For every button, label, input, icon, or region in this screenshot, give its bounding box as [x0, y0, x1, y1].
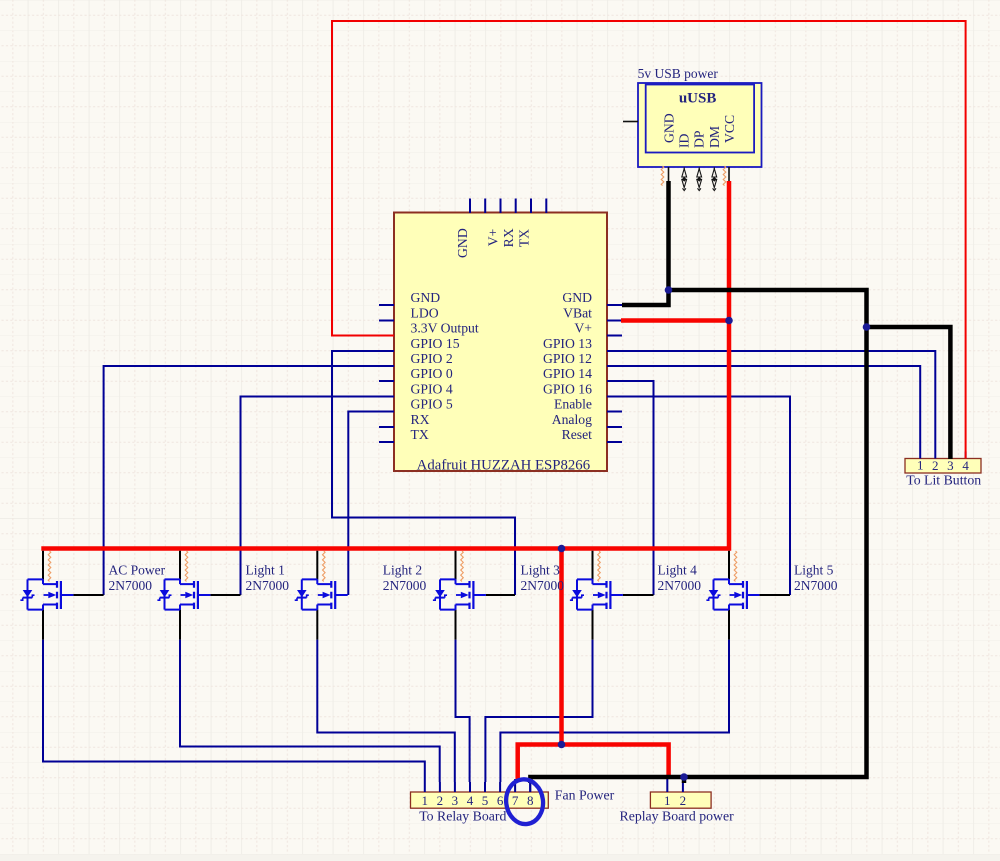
svg-text:GND: GND	[411, 290, 441, 305]
svg-text:Light 1: Light 1	[246, 563, 285, 578]
wire net GPIO15 from U1 to Q4 gate	[332, 351, 515, 595]
transistor Q3 2N7000 Light 2	[295, 551, 348, 640]
svg-text:GPIO 15: GPIO 15	[411, 336, 460, 351]
svg-text:2: 2	[437, 793, 444, 808]
svg-text:V+: V+	[485, 228, 500, 246]
svg-text:TX: TX	[411, 427, 429, 442]
svg-text:V+: V+	[574, 321, 592, 336]
ERC squiggle at Q1 drain	[48, 551, 51, 581]
wire thick black GND to J4 pin 3	[867, 327, 951, 459]
svg-text:GND: GND	[661, 113, 676, 143]
svg-text:uUSB: uUSB	[679, 91, 717, 107]
J3 pin numbers 1-2	[664, 793, 686, 808]
J4 pin numbers 1-4	[917, 458, 969, 473]
svg-text:1: 1	[664, 793, 671, 808]
svg-text:GPIO 13: GPIO 13	[543, 336, 592, 351]
ERC squiggle at Q4 drain	[461, 551, 464, 581]
connector J4 To Lit Button body	[905, 459, 981, 474]
wire thin red net 3.3V frame loop U1 to J4 pin 4	[332, 21, 966, 459]
wire Q3 source to J2 pin 3	[317, 640, 455, 782]
svg-text:Reset: Reset	[562, 427, 593, 442]
wire Q6 gate link black segment	[759, 594, 790, 596]
wire thick red VBat to VCC	[621, 318, 729, 323]
svg-text:RX: RX	[501, 228, 516, 247]
wire Q4 gate link black segment	[486, 594, 515, 596]
J1 GND pin stub	[668, 167, 670, 181]
wire thick black GND branch to J3 pin 2	[682, 777, 687, 783]
svg-text:GND: GND	[562, 290, 592, 305]
ERC squiggle at Q3 drain	[323, 551, 326, 581]
wire thick red VCC rail down and power bus	[41, 181, 729, 549]
svg-text:3: 3	[947, 458, 954, 473]
svg-text:VBat: VBat	[563, 306, 592, 321]
annotation ellipse around J2 pins 7-8	[504, 777, 546, 826]
junction at power bus tee	[558, 545, 566, 553]
wire thick red bus drop to fan power row	[559, 549, 564, 745]
svg-text:VCC: VCC	[722, 115, 737, 143]
transistor Q5 2N7000 Light 4	[570, 551, 623, 640]
J1 left side pin stub	[623, 121, 638, 123]
wire net GPIO14 from U1 to Q5 gate	[607, 381, 654, 595]
wire Q1 gate link black segment	[73, 594, 103, 596]
svg-text:2N7000: 2N7000	[383, 578, 427, 593]
svg-text:To Lit Button: To Lit Button	[906, 473, 981, 488]
svg-text:1: 1	[422, 793, 429, 808]
J2 pin stubs	[425, 779, 530, 792]
svg-text:DP: DP	[692, 130, 707, 148]
junction at black GND corner right	[863, 323, 871, 331]
J1 VCC pin stub	[728, 167, 730, 181]
wire net GPIO4 from U1 to Q2 gate	[241, 397, 395, 596]
J1 no-connect arrow on pin DP	[697, 168, 702, 191]
svg-text:DM: DM	[707, 126, 722, 148]
ERC marker squiggle at J1 GND pin	[661, 166, 664, 186]
svg-text:4: 4	[467, 793, 474, 808]
svg-text:2N7000: 2N7000	[246, 578, 290, 593]
ERC marker squiggle at J1 VCC pin	[723, 166, 726, 186]
svg-text:2: 2	[680, 793, 687, 808]
ERC squiggle at Q2 drain	[185, 551, 188, 581]
svg-text:GPIO 2: GPIO 2	[411, 351, 453, 366]
junction at GND branch	[665, 286, 673, 294]
U1 left pin names	[411, 290, 479, 442]
connector J1 uUSB body	[638, 83, 762, 167]
svg-text:GPIO 12: GPIO 12	[543, 351, 592, 366]
J1 no-connect arrow on pin DM	[712, 168, 717, 191]
svg-text:6: 6	[497, 793, 504, 808]
wire Q5 gate link black segment	[623, 594, 654, 596]
svg-text:Enable: Enable	[554, 397, 592, 412]
svg-text:Light 4: Light 4	[658, 563, 698, 578]
transistor Q1 2N7000 AC Power	[20, 551, 73, 640]
ERC squiggle at Q6 drain	[734, 551, 737, 581]
transistor Q4 2N7000 Light 3	[433, 551, 486, 640]
svg-text:AC Power: AC Power	[109, 563, 166, 578]
svg-text:4: 4	[962, 458, 969, 473]
wire Q6 source to J2 pin 6	[500, 640, 729, 782]
svg-text:2N7000: 2N7000	[794, 578, 838, 593]
wire thick black GND down along right side	[530, 327, 866, 783]
wire thick black GND branch right	[669, 290, 867, 327]
svg-text:GPIO 14: GPIO 14	[543, 366, 592, 381]
svg-text:ID: ID	[677, 133, 692, 148]
wire net GPIO5 from U1 to Q3 gate	[348, 412, 394, 596]
svg-text:Analog: Analog	[552, 412, 592, 427]
svg-text:GPIO 0: GPIO 0	[411, 366, 453, 381]
junction at fan power tee	[558, 741, 566, 749]
wire Q2 source to J2 pin 2	[180, 640, 440, 782]
U1 top pins (6 stubs)	[470, 199, 546, 214]
U1 left unconnected pin stubs	[379, 305, 394, 442]
svg-text:5: 5	[482, 793, 489, 808]
wire Q1 source to J2 pin 1	[43, 640, 425, 782]
svg-text:3.3V Output: 3.3V Output	[411, 321, 479, 336]
component U1 Adafruit HUZZAH ESP8266 body	[394, 213, 607, 472]
wire net GPIO16 from U1 to Q6 gate	[607, 397, 790, 596]
svg-text:7: 7	[512, 793, 519, 808]
svg-text:Light 5: Light 5	[794, 563, 834, 578]
svg-text:2: 2	[932, 458, 939, 473]
connector J2 To Relay Board body	[411, 792, 549, 808]
svg-text:1: 1	[917, 458, 924, 473]
transistor Q6 2N7000 Light 5	[706, 551, 759, 640]
wire net GPIO2 from U1 to Q1 gate	[104, 366, 394, 595]
svg-text:8: 8	[527, 793, 534, 808]
svg-text:5v USB power: 5v USB power	[638, 66, 719, 81]
svg-text:TX: TX	[517, 229, 532, 247]
wire Q2 gate link black segment	[210, 594, 240, 596]
wire Q4 source to J2 pin 4	[456, 640, 470, 782]
svg-text:2N7000: 2N7000	[109, 578, 153, 593]
U1 right pin stubs	[607, 305, 622, 442]
wire thick red fan power row to J2 pin 7 and J3 pin 1	[518, 745, 669, 780]
svg-text:2N7000: 2N7000	[658, 578, 702, 593]
svg-text:Fan Power: Fan Power	[555, 788, 615, 803]
transistor Q2 2N7000 Light 1	[157, 551, 210, 640]
wire J2 pin 8 stub	[529, 779, 531, 792]
J3 pin stubs	[667, 779, 683, 792]
junction at J3 pin 2 drop	[680, 773, 688, 781]
svg-text:GPIO 5: GPIO 5	[411, 397, 453, 412]
svg-text:To Relay Board: To Relay Board	[419, 809, 506, 824]
connector J3 Replay Board power body	[650, 792, 711, 808]
svg-text:3: 3	[452, 793, 459, 808]
J1 no-connect arrow on pin ID	[682, 168, 687, 191]
junction at VBat/VCC tee	[725, 317, 733, 325]
svg-text:RX: RX	[411, 412, 430, 427]
svg-text:Adafruit HUZZAH ESP8266: Adafruit HUZZAH ESP8266	[417, 457, 590, 473]
J4 pin stubs	[920, 452, 965, 459]
ERC squiggle at Q5 drain	[598, 551, 601, 581]
J2 pin numbers 1-8	[422, 793, 534, 808]
svg-text:GND: GND	[455, 228, 470, 258]
U1 right pin names	[543, 290, 592, 442]
wire net GPIO12 from U1 to J4 pin 1	[607, 366, 920, 452]
svg-text:Replay Board power: Replay Board power	[620, 809, 735, 824]
svg-text:Light 3: Light 3	[521, 563, 561, 578]
svg-text:GPIO 16: GPIO 16	[543, 382, 592, 397]
svg-text:LDO: LDO	[411, 306, 439, 321]
wire Q5 source to J2 pin 5	[485, 640, 592, 782]
svg-text:GPIO 4: GPIO 4	[411, 382, 453, 397]
wire net GPIO13 from U1 to J4 pin 2	[607, 351, 935, 452]
svg-text:2N7000: 2N7000	[521, 578, 565, 593]
svg-text:Light 2: Light 2	[383, 563, 422, 578]
wire thick black GND U1 to J1 GND pin	[622, 181, 669, 305]
